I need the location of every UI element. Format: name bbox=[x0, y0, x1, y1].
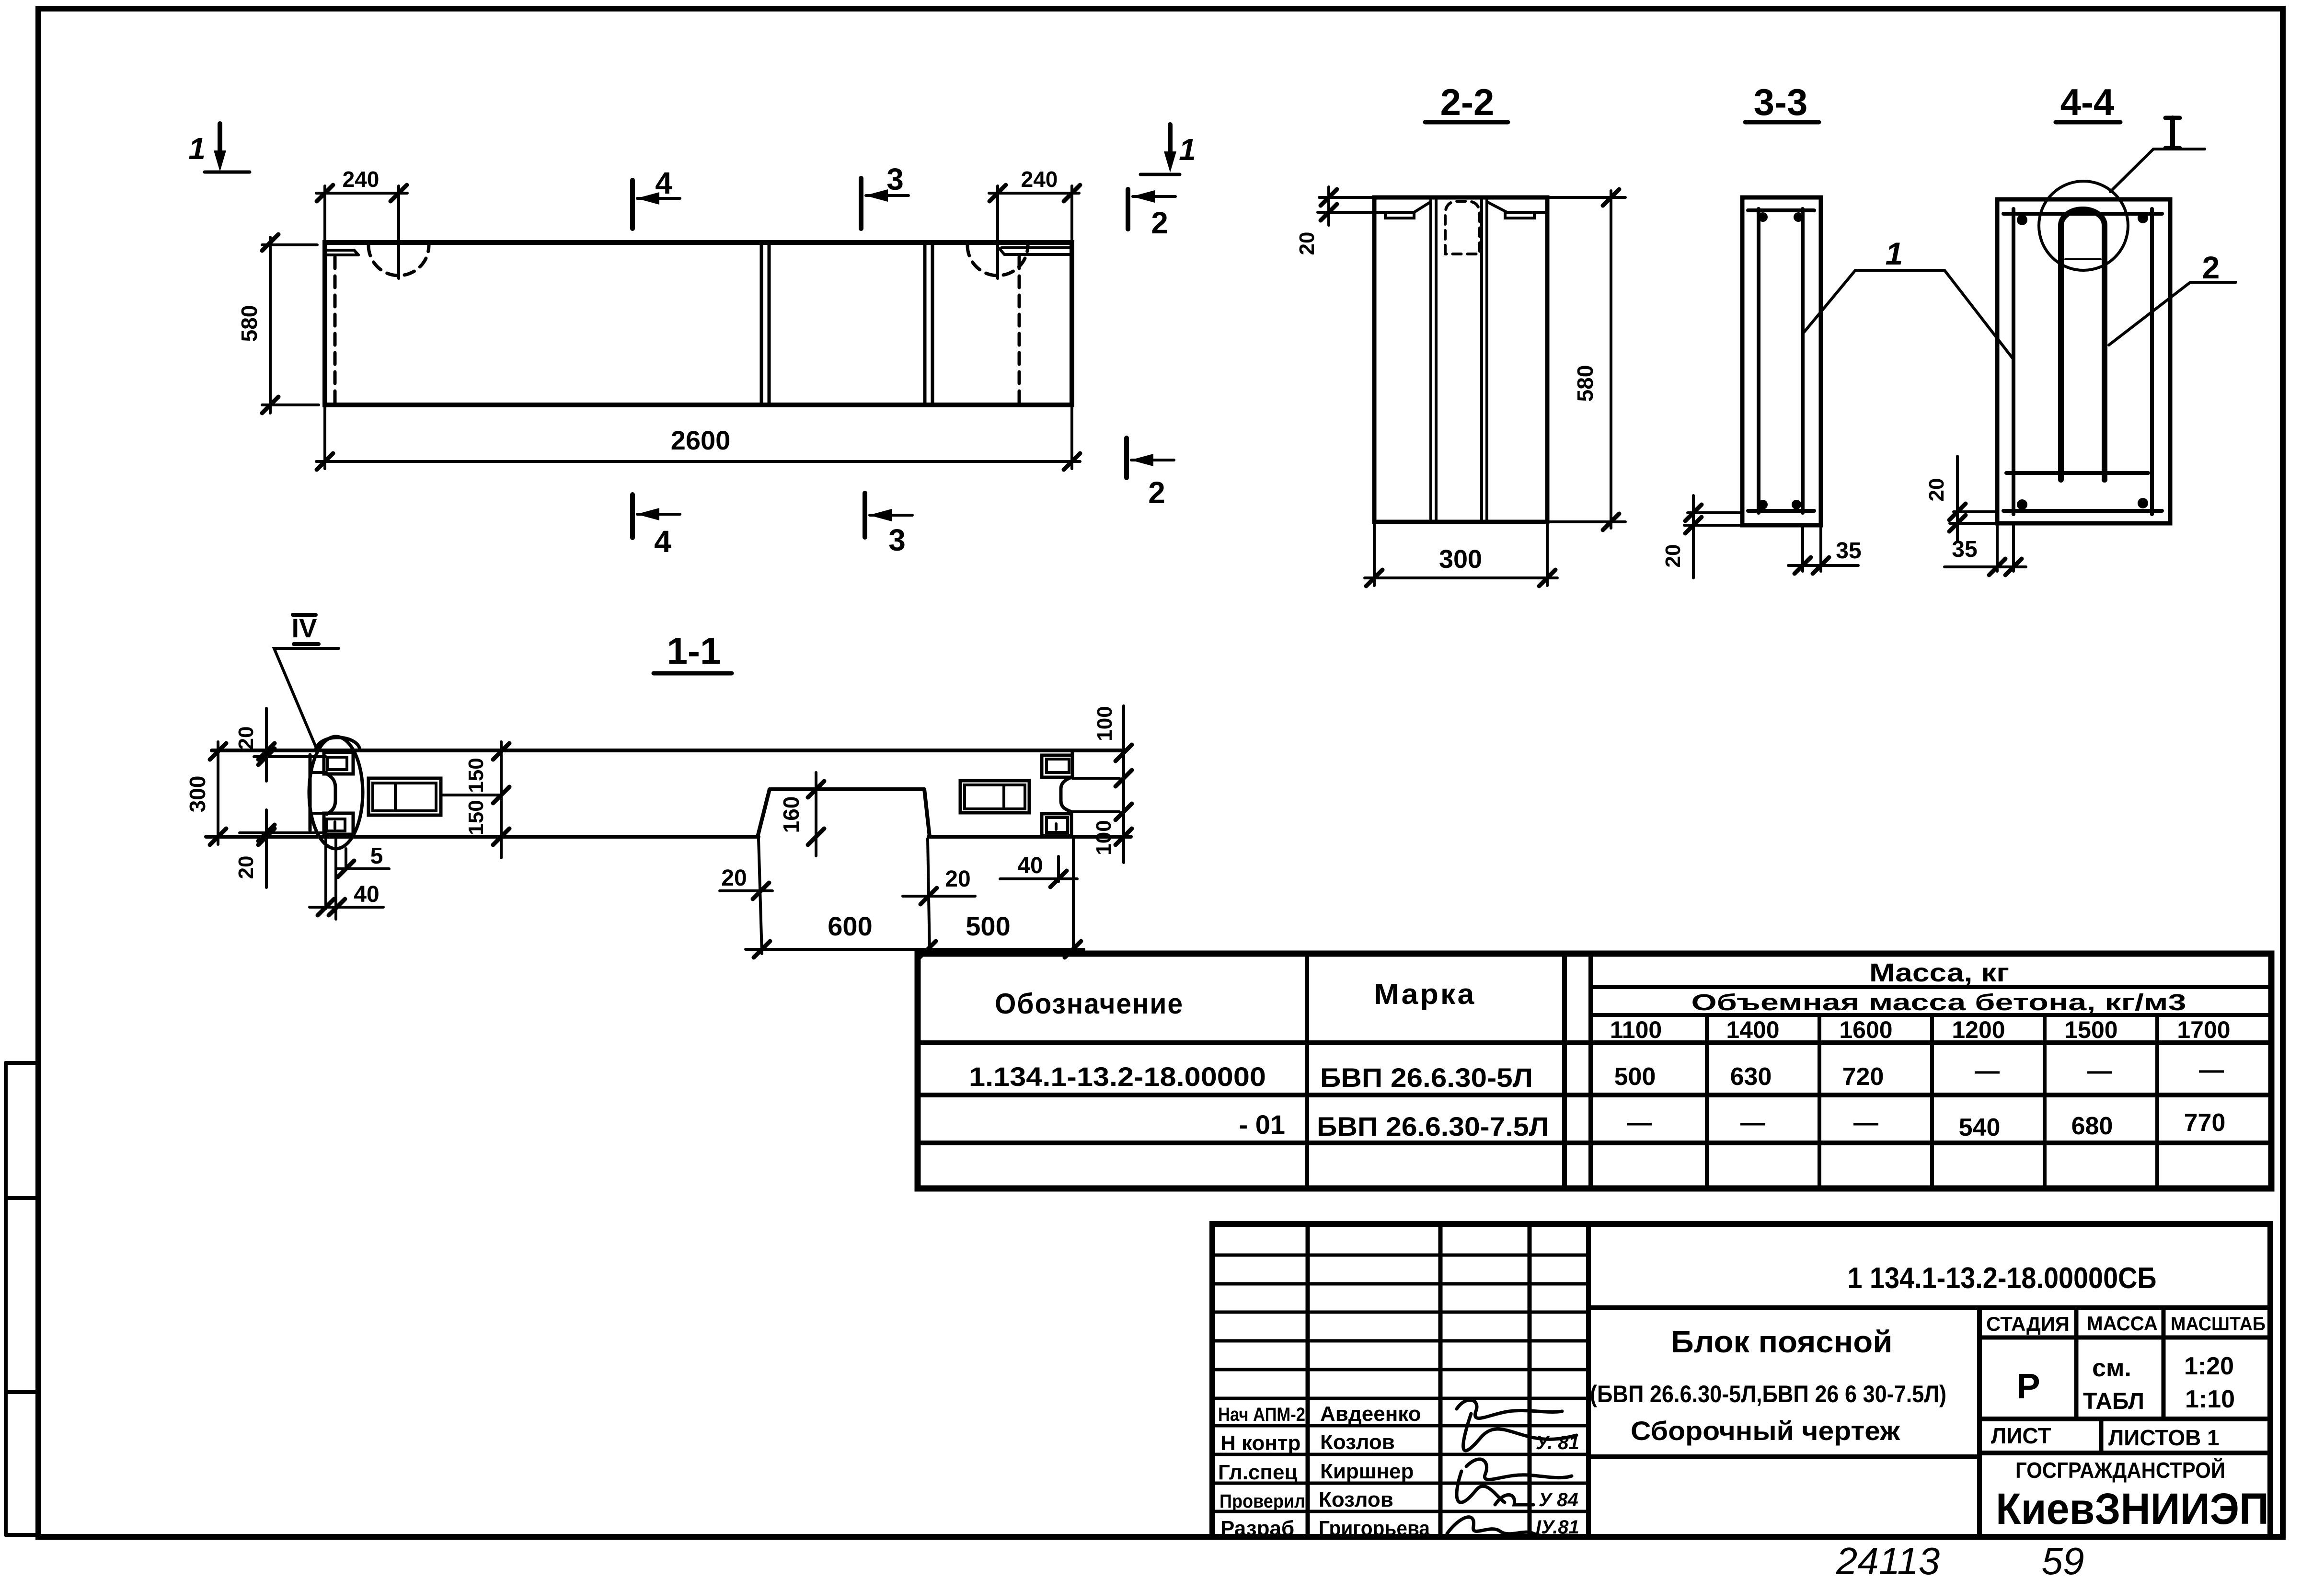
lifting loop arc in plan bbox=[316, 738, 360, 750]
svg-text:1200: 1200 bbox=[1952, 1016, 2005, 1043]
svg-text:Авдеенко: Авдеенко bbox=[1320, 1402, 1421, 1426]
hidden lifting loop arc left bbox=[368, 245, 429, 276]
section 2-2 dim 580 bbox=[1549, 189, 1625, 530]
svg-text:40: 40 bbox=[1017, 853, 1043, 878]
svg-text:Блок поясной: Блок поясной bbox=[1671, 1325, 1893, 1359]
svg-text:БВП 26.6.30-7.5Л: БВП 26.6.30-7.5Л bbox=[1317, 1111, 1549, 1141]
svg-text:Нач АПМ-2: Нач АПМ-2 bbox=[1218, 1404, 1305, 1425]
section 2-2 outline bbox=[1374, 197, 1547, 522]
detail ellipse IV bbox=[309, 737, 363, 849]
svg-text:ЛИСТОВ 1: ЛИСТОВ 1 bbox=[2108, 1425, 2220, 1450]
beam top-left notch bbox=[325, 250, 358, 255]
svg-text:1100: 1100 bbox=[1610, 1016, 1662, 1043]
lifting loop U-bar bbox=[2061, 209, 2105, 480]
detail label I bbox=[2110, 118, 2205, 192]
svg-text:600: 600 bbox=[828, 911, 872, 941]
svg-text:20: 20 bbox=[721, 865, 747, 891]
leader IV bbox=[274, 648, 339, 749]
svg-text:- 01: - 01 bbox=[1239, 1109, 1286, 1140]
svg-text:Проверил: Проверил bbox=[1220, 1491, 1305, 1512]
spec table outer bbox=[918, 954, 2271, 1188]
spec table horizontals bbox=[918, 987, 2271, 1143]
svg-text:300: 300 bbox=[185, 776, 210, 813]
beam elevation outline bbox=[325, 242, 1072, 405]
svg-text:1700: 1700 bbox=[2177, 1016, 2230, 1043]
svg-text:КиевЗНИИЭП: КиевЗНИИЭП bbox=[1996, 1485, 2269, 1533]
svg-text:1500: 1500 bbox=[2064, 1016, 2117, 1043]
leader line item 2 bbox=[2109, 282, 2236, 345]
stage mass scale block bbox=[1979, 1308, 2270, 1419]
svg-text:3: 3 bbox=[886, 162, 904, 196]
svg-text:2: 2 bbox=[1151, 206, 1168, 240]
svg-text:1:10: 1:10 bbox=[2185, 1385, 2235, 1413]
svg-text:1-1: 1-1 bbox=[667, 630, 721, 672]
section 2-2 top chamfer left bbox=[1374, 202, 1431, 218]
section mark 1 top-left bbox=[188, 124, 250, 172]
svg-text:Разраб: Разраб bbox=[1220, 1517, 1294, 1540]
svg-text:150: 150 bbox=[464, 758, 488, 793]
svg-text:4-4: 4-4 bbox=[2060, 81, 2115, 123]
leader line item 1 bbox=[1804, 270, 2013, 359]
section 3-3 rebar dots bbox=[1758, 212, 1803, 509]
svg-text:40: 40 bbox=[354, 882, 379, 907]
svg-text:Киршнер: Киршнер bbox=[1320, 1460, 1414, 1483]
svg-text:240: 240 bbox=[1021, 167, 1058, 192]
svg-text:Масса, кг: Масса, кг bbox=[1869, 958, 2009, 987]
svg-text:1 134.1-13.2-18.00000СБ: 1 134.1-13.2-18.00000СБ bbox=[1848, 1262, 2157, 1295]
dim 300 left of 1-1 bbox=[185, 742, 226, 845]
interior joint double line B bbox=[923, 244, 927, 403]
svg-text:Объемная масса бетона, кг/м3: Объемная масса бетона, кг/м3 bbox=[1691, 990, 2186, 1015]
svg-text:МАССА: МАССА bbox=[2087, 1312, 2158, 1335]
svg-text:3-3: 3-3 bbox=[1754, 81, 1808, 123]
dim 20 bottom left of 1-1 bbox=[234, 810, 326, 887]
extension lines below left end bbox=[324, 838, 327, 909]
section 4-4 dim 20 bbox=[1925, 456, 1996, 542]
svg-text:1: 1 bbox=[1886, 236, 1903, 271]
hidden lifting loop arc right bbox=[967, 245, 1028, 276]
svg-text:Марка: Марка bbox=[1374, 978, 1476, 1010]
svg-text:540: 540 bbox=[1959, 1114, 2001, 1141]
dim 40 right bbox=[1000, 853, 1077, 887]
loop axis line right bbox=[996, 186, 999, 278]
svg-text:150: 150 bbox=[464, 800, 488, 835]
svg-text:20: 20 bbox=[1295, 232, 1319, 255]
svg-text:—: — bbox=[2087, 1057, 2112, 1085]
embedded plate left bbox=[368, 778, 501, 815]
svg-text:2: 2 bbox=[1148, 475, 1165, 510]
detail circle I bbox=[2039, 181, 2128, 270]
svg-text:35: 35 bbox=[1952, 537, 1977, 562]
left end face with keyways bbox=[324, 752, 353, 834]
svg-text:5: 5 bbox=[370, 843, 383, 869]
svg-text:1: 1 bbox=[1179, 132, 1196, 167]
hidden dashed edge left bbox=[334, 257, 337, 403]
dim 20 at recess right bbox=[903, 839, 975, 954]
beam top-right notch bbox=[1000, 248, 1072, 254]
spec table verticals bbox=[1307, 954, 2157, 1188]
svg-text:500: 500 bbox=[1614, 1063, 1656, 1091]
dim 600 bbox=[746, 911, 936, 957]
section 1-1 bottom recess bbox=[758, 789, 930, 837]
dim 500 bbox=[934, 839, 1084, 957]
svg-text:ТАБЛ: ТАБЛ bbox=[2083, 1389, 2144, 1414]
section 3-3 outline bbox=[1742, 197, 1821, 525]
svg-text:см.: см. bbox=[2092, 1354, 2131, 1382]
section 3-3 dim 35 bbox=[1788, 527, 1862, 574]
signatures scribble bbox=[1447, 1400, 1576, 1536]
adjacent block tongue right bbox=[1072, 777, 1119, 780]
svg-text:300: 300 bbox=[1439, 545, 1482, 574]
section 4-4 rebar dots bbox=[2017, 213, 2148, 510]
svg-text:4: 4 bbox=[655, 166, 672, 200]
svg-text:20: 20 bbox=[945, 866, 970, 892]
loop axis line left bbox=[397, 186, 400, 278]
svg-text:24113: 24113 bbox=[1836, 1540, 1940, 1579]
svg-text:1600: 1600 bbox=[1839, 1016, 1892, 1043]
svg-text:680: 680 bbox=[2071, 1112, 2113, 1140]
svg-text:1:20: 1:20 bbox=[2184, 1352, 2234, 1380]
svg-text:160: 160 bbox=[779, 796, 804, 833]
dim 40 left bbox=[310, 882, 383, 915]
title block outer bbox=[1212, 1224, 2270, 1537]
svg-text:ЛИСТ: ЛИСТ bbox=[1991, 1423, 2051, 1448]
section 4-4 dim 35 bbox=[1944, 525, 2026, 575]
svg-text:—: — bbox=[1853, 1109, 1878, 1137]
dim 100 100 right bbox=[1092, 706, 1132, 863]
svg-text:Р: Р bbox=[2016, 1366, 2040, 1406]
svg-text:580: 580 bbox=[237, 305, 262, 342]
main title cell bbox=[1977, 1308, 1982, 1537]
svg-text:—: — bbox=[1740, 1109, 1765, 1137]
svg-text:МАСШТАБ: МАСШТАБ bbox=[2171, 1314, 2266, 1335]
hidden dashed edge right bbox=[1018, 257, 1021, 403]
svg-text:Н контр: Н контр bbox=[1220, 1431, 1300, 1455]
adjacent block end face left bbox=[309, 755, 312, 830]
section mark 3 top bbox=[861, 162, 909, 229]
dimension 2600 bottom bbox=[316, 407, 1080, 470]
section 2-2 dim 20 bbox=[1295, 187, 1373, 255]
svg-text:20: 20 bbox=[1661, 544, 1685, 568]
svg-text:4: 4 bbox=[654, 524, 671, 559]
svg-text:Козлов: Козлов bbox=[1319, 1488, 1393, 1511]
svg-text:У 84: У 84 bbox=[1539, 1489, 1578, 1510]
svg-text:1.134.1-13.2-18.00000: 1.134.1-13.2-18.00000 bbox=[969, 1061, 1266, 1092]
svg-text:Козлов: Козлов bbox=[1320, 1430, 1395, 1454]
section mark 2 top bbox=[1128, 189, 1175, 240]
svg-text:20: 20 bbox=[1925, 478, 1948, 502]
section 2-2 dim 300 bbox=[1365, 524, 1557, 586]
svg-text:1: 1 bbox=[188, 131, 206, 166]
section 4-4 rebar cage bbox=[2003, 209, 2162, 514]
svg-text:100: 100 bbox=[1092, 820, 1116, 855]
svg-text:2600: 2600 bbox=[671, 425, 731, 455]
svg-text:20: 20 bbox=[234, 856, 258, 879]
section 2-2 top chamfer right bbox=[1487, 202, 1547, 218]
svg-text:Григорьева: Григорьева bbox=[1319, 1517, 1430, 1540]
section 3-3 rebar cage bbox=[1748, 209, 1814, 513]
title block staff verticals bbox=[1308, 1224, 1588, 1537]
dim 5 bbox=[337, 843, 389, 877]
svg-text:—: — bbox=[1975, 1057, 2000, 1085]
svg-text:БВП 26.6.30-5Л: БВП 26.6.30-5Л bbox=[1320, 1062, 1533, 1093]
dimension 580 left bbox=[237, 234, 319, 413]
right end face with keyways bbox=[1042, 750, 1072, 836]
dim 150 150 bbox=[464, 742, 509, 858]
svg-text:500: 500 bbox=[966, 911, 1010, 941]
svg-text:Гл.спец: Гл.спец bbox=[1218, 1461, 1298, 1484]
sheet row bbox=[2099, 1419, 2104, 1453]
svg-text:720: 720 bbox=[1842, 1063, 1884, 1091]
svg-text:(БВП 26.6.30-5Л,БВП 26 6 30-7.: (БВП 26.6.30-5Л,БВП 26 6 30-7.5Л) bbox=[1590, 1381, 1946, 1407]
section mark 3 bottom bbox=[865, 493, 912, 557]
svg-text:СТАДИЯ: СТАДИЯ bbox=[1986, 1313, 2070, 1335]
section mark 4 top bbox=[633, 166, 680, 229]
svg-text:35: 35 bbox=[1836, 538, 1861, 564]
section mark 4 bottom bbox=[633, 495, 680, 559]
svg-text:580: 580 bbox=[1573, 365, 1598, 402]
dimension 240 left bbox=[316, 167, 407, 242]
svg-text:59: 59 bbox=[2042, 1540, 2084, 1579]
svg-text:Обозначение: Обозначение bbox=[995, 988, 1184, 1020]
svg-text:—: — bbox=[2199, 1056, 2224, 1084]
svg-text:Сборочный чертеж: Сборочный чертеж bbox=[1631, 1416, 1900, 1446]
section 4-4 outline bbox=[1997, 199, 2170, 523]
section mark 2 bottom bbox=[1127, 438, 1174, 510]
section 1-1 bottom edge bbox=[206, 835, 759, 839]
svg-text:IV: IV bbox=[292, 613, 317, 643]
section mark 1 top-right bbox=[1140, 125, 1196, 174]
svg-text:100: 100 bbox=[1093, 706, 1116, 741]
svg-text:3: 3 bbox=[888, 523, 906, 557]
interior joint double line A bbox=[760, 244, 763, 403]
section 1-1 top edge bbox=[212, 749, 1124, 752]
doc number cell bbox=[1588, 1305, 2270, 1310]
svg-text:240: 240 bbox=[343, 167, 380, 192]
svg-text:770: 770 bbox=[2184, 1109, 2226, 1137]
dimension 240 right bbox=[989, 167, 1080, 242]
svg-text:1400: 1400 bbox=[1726, 1016, 1779, 1043]
dim 160 bbox=[779, 772, 824, 856]
svg-text:—: — bbox=[1627, 1109, 1652, 1137]
left margin attachment boxes bbox=[6, 1063, 38, 1535]
dim 20 at recess left bbox=[720, 839, 772, 954]
embedded plate right bbox=[960, 781, 1029, 813]
svg-text:630: 630 bbox=[1730, 1063, 1772, 1091]
svg-text:ГОСГРАЖДАНСТРОЙ: ГОСГРАЖДАНСТРОЙ bbox=[2015, 1458, 2225, 1483]
svg-text:2: 2 bbox=[2202, 250, 2220, 285]
section 2-2 rib edges bbox=[1431, 199, 1487, 520]
dim 20 top left of 1-1 bbox=[234, 708, 326, 781]
svg-text:20: 20 bbox=[234, 726, 258, 750]
section 2-2 hidden loop channel bbox=[1445, 201, 1480, 254]
title block staff rows bbox=[1212, 1255, 1588, 1511]
section 3-3 dim 20 bbox=[1661, 496, 1741, 578]
svg-text:2-2: 2-2 bbox=[1440, 81, 1495, 123]
